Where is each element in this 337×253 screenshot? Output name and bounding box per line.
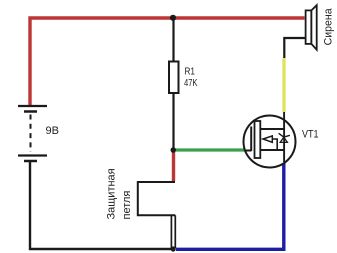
wire blue source (176, 162, 284, 249)
node junction bottom (171, 246, 176, 251)
wire red loop drop segment (172, 150, 175, 181)
body diode cathode bent bar (279, 133, 290, 137)
node junction top (170, 15, 176, 21)
battery cell1 short plate (24, 110, 37, 113)
wire black security loop zigzag (138, 182, 176, 215)
svg-text:VT1: VT1 (302, 129, 319, 141)
speaker body rect (306, 10, 312, 44)
speaker BA1 siren (306, 5, 317, 50)
drain-source vertical line (283, 112, 285, 162)
svg-text:R1: R1 (185, 66, 196, 78)
battery GB1 9V (18, 106, 47, 161)
battery dashed middle (30, 115, 32, 153)
svg-text:Защитная: Защитная (106, 168, 118, 219)
channel bottom line (260, 149, 284, 151)
wire loop return right (174, 215, 176, 248)
substrate arrow tail (272, 139, 277, 150)
gate electrode line (250, 127, 252, 152)
substrate arrow (263, 136, 272, 142)
wire green gate (176, 148, 245, 151)
svg-text:47K: 47K (184, 77, 198, 89)
wire yellow drain (282, 58, 285, 112)
wire red positive rail (30, 18, 305, 106)
wire black battery negative lead (30, 161, 173, 249)
channel top line (260, 128, 284, 130)
battery cell2 long plate (18, 154, 47, 156)
speaker cone (311, 5, 316, 50)
mosfet body circle (244, 116, 296, 168)
battery cell2 short plate (24, 160, 37, 163)
svg-text:петля: петля (121, 191, 133, 220)
transistor VT1 MOSFET (244, 112, 296, 168)
svg-text:Сирена: Сирена (322, 8, 334, 46)
node junction middle (171, 147, 177, 153)
wire black resistor bottom lead (172, 93, 174, 150)
wire black resistor top lead (172, 18, 174, 62)
resistor R1 (169, 62, 179, 94)
wire black drain to speaker (284, 38, 305, 58)
battery cell1 long plate (18, 105, 47, 107)
body diode triangle (280, 137, 287, 142)
svg-text:9В: 9В (46, 125, 59, 137)
gate lead inside (245, 150, 252, 152)
wire loop return left (170, 215, 172, 248)
gate plate rect (255, 121, 261, 158)
